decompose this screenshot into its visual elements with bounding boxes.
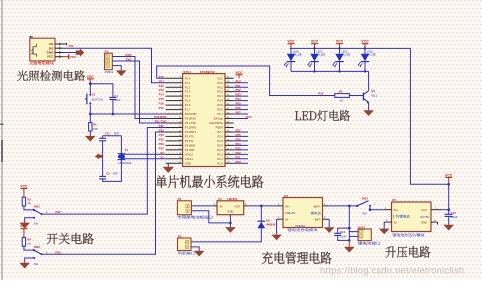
- U3 IN- to ground: [276, 219, 278, 234]
- svg-text:1K: 1K: [27, 241, 31, 245]
- section title 充电管理电路: [262, 251, 332, 264]
- svg-text:Q1: Q1: [371, 89, 375, 93]
- wire solar pin1 to ground rail: [191, 211, 230, 223]
- svg-text:IN: IN: [220, 204, 223, 208]
- svg-text:P1.7: P1.7: [185, 108, 191, 112]
- svg-text:P17: P17: [159, 106, 165, 110]
- svg-text:P0.5: P0.5: [217, 103, 223, 107]
- junction dot on rail: [313, 47, 315, 49]
- wire RXD to P3.0: [112, 57, 165, 119]
- svg-text:P3.4T0: P3.4T0: [185, 135, 194, 139]
- svg-text:VCC: VCC: [87, 75, 95, 79]
- svg-text:VCC: VCC: [361, 40, 369, 44]
- wire VCC node to C1: [90, 84, 113, 97]
- svg-text:P02: P02: [236, 88, 242, 92]
- capacitor C13: [445, 213, 453, 215]
- svg-text:USB+5V: USB+5V: [285, 211, 296, 215]
- svg-text:P0.0: P0.0: [217, 81, 223, 85]
- svg-text:P0.2: P0.2: [217, 90, 223, 94]
- capacitor C12 parallel loop: [338, 228, 350, 240]
- svg-text:P3.3INT1: P3.3INT1: [185, 130, 197, 134]
- svg-text:P22: P22: [236, 151, 242, 155]
- svg-text:P1.5: P1.5: [185, 99, 191, 103]
- svg-text:P2.4: P2.4: [217, 144, 223, 148]
- LED LED1: [364, 48, 366, 53]
- svg-text:https://blog.csdn.net/eletroni: https://blog.csdn.net/eletroniclish: [320, 265, 464, 275]
- svg-text:P12: P12: [159, 84, 165, 88]
- svg-text:P00: P00: [236, 79, 242, 83]
- junction dot at boost VCC pin wire: [447, 208, 450, 211]
- svg-text:P20: P20: [236, 160, 242, 164]
- wire U5 VCC pin to VCC node: [442, 209, 449, 211]
- U4 GND stem and junction: [229, 215, 231, 227]
- wires BAT1 pins: [349, 231, 358, 233]
- svg-text:X1: X1: [160, 155, 164, 159]
- ground for P1: [116, 70, 127, 76]
- svg-text:IN+: IN+: [285, 204, 290, 208]
- svg-text:P0.3: P0.3: [217, 94, 223, 98]
- port arrow GND from sensor: [63, 52, 76, 54]
- svg-text:P3.2INT0: P3.2INT0: [185, 126, 197, 130]
- svg-text:U5: U5: [392, 198, 396, 202]
- ground for Q1: [363, 110, 374, 116]
- solar panel connector P2: [177, 201, 191, 215]
- section title 单片机最小系统电路: [156, 175, 263, 188]
- U3 BAT- to ground: [328, 219, 330, 227]
- push button S1: [89, 84, 91, 94]
- svg-text:P2: P2: [178, 197, 182, 201]
- svg-text:OUT5V: OUT5V: [420, 215, 429, 219]
- U5 IN- to ground: [383, 222, 385, 229]
- label under U1: [29, 61, 54, 64]
- svg-text:LED3: LED3: [316, 50, 323, 53]
- svg-text:BAT-: BAT-: [315, 218, 321, 222]
- svg-text:GND: GND: [227, 210, 233, 214]
- svg-text:VCC: VCC: [336, 40, 344, 44]
- svg-text:TXD: TXD: [125, 57, 132, 61]
- svg-text:1K: 1K: [27, 201, 31, 205]
- wire SW2 to P3.3: [42, 132, 166, 254]
- svg-text:P11: P11: [69, 44, 74, 48]
- ground under battery node: [348, 240, 350, 246]
- svg-text:220uF: 220uF: [450, 215, 458, 219]
- crystal circuit loop wires: [103, 136, 122, 182]
- svg-text:1K: 1K: [340, 99, 344, 103]
- svg-text:BAT+: BAT+: [314, 204, 321, 208]
- svg-text:VCC: VCC: [246, 115, 253, 119]
- svg-text:9012: 9012: [371, 93, 377, 97]
- svg-text:Y1: Y1: [125, 148, 129, 152]
- diode D6 1N5819: [260, 206, 262, 221]
- svg-text:10K: 10K: [93, 127, 98, 131]
- label 太阳能电池板接口: [178, 215, 213, 218]
- junction dot at C1 bottom: [112, 113, 115, 116]
- resistor R3: [22, 197, 25, 206]
- wire solar pin2 to U4 IN: [191, 205, 212, 207]
- wire XTAL2: [121, 153, 165, 155]
- svg-text:P1.3: P1.3: [185, 90, 191, 94]
- svg-text:SW3: SW3: [362, 196, 369, 200]
- wire TXD to P3.1: [112, 61, 165, 123]
- junction dot VCC node: [447, 183, 450, 186]
- svg-text:VCC: VCC: [421, 208, 427, 212]
- resistor R1: [89, 114, 91, 123]
- svg-text:P06: P06: [236, 106, 242, 110]
- svg-text:SW2: SW2: [34, 245, 41, 249]
- wire DO to P1.1: [63, 48, 166, 82]
- no-connect ticks on U1 pins: [60, 43, 67, 59]
- svg-text:10uF: 10uF: [114, 98, 121, 102]
- junction dot at RST node: [89, 113, 92, 116]
- svg-text:P32: P32: [56, 210, 62, 214]
- resistor R4: [22, 237, 25, 246]
- svg-text:P23: P23: [236, 146, 242, 150]
- svg-text:P34: P34: [159, 133, 165, 137]
- U1 pin stubs: [55, 43, 67, 45]
- svg-text:P35: P35: [159, 138, 165, 142]
- wire D6 anode to fan connector: [191, 228, 261, 242]
- svg-text:RST/VPD: RST/VPD: [185, 112, 197, 116]
- svg-text:P3.7RD: P3.7RD: [185, 148, 194, 152]
- wire P1.0 to LED base resistor: [157, 66, 363, 96]
- svg-text:P2.6: P2.6: [217, 135, 223, 139]
- svg-text:P21: P21: [236, 155, 242, 159]
- svg-text:P26: P26: [236, 133, 242, 137]
- svg-text:STC1: STC1: [183, 70, 191, 74]
- svg-text:P14: P14: [159, 93, 165, 97]
- svg-text:P1.2: P1.2: [185, 85, 191, 89]
- svg-text:U3: U3: [284, 194, 288, 198]
- svg-text:VCC: VCC: [287, 40, 295, 44]
- junction dot on rail: [338, 47, 340, 49]
- svg-text:P3.1TXD: P3.1TXD: [185, 121, 196, 125]
- light sensor module U1: [30, 38, 55, 61]
- crystal Y1: [118, 153, 126, 155]
- svg-text:C11: C11: [105, 131, 110, 135]
- capacitor C11: [99, 137, 106, 139]
- svg-text:OUT: OUT: [234, 204, 240, 208]
- MCU right pin stubs: [225, 78, 234, 163]
- switch SW1: [24, 206, 34, 210]
- U4 pin stubs: [212, 205, 217, 207]
- svg-text:P2.2: P2.2: [217, 152, 223, 156]
- MCU right wires: [234, 83, 248, 164]
- resistor R2: [335, 94, 350, 98]
- svg-text:TP4056: TP4056: [295, 224, 305, 228]
- capacitor C2: [99, 175, 106, 177]
- svg-text:P25: P25: [236, 138, 242, 142]
- LED emission arrows: [333, 62, 337, 66]
- ground for SW1: [19, 223, 30, 229]
- svg-text:IN+: IN+: [394, 208, 399, 212]
- svg-text:RXD: RXD: [125, 53, 132, 57]
- label 锂电池接口: [358, 241, 380, 244]
- U3 pin stubs: [277, 205, 283, 207]
- svg-text:P3.0RXD: P3.0RXD: [185, 117, 196, 121]
- svg-text:P37: P37: [159, 146, 165, 150]
- svg-text:C2: C2: [106, 172, 110, 176]
- svg-text:P1: P1: [105, 50, 109, 54]
- svg-text:S1: S1: [92, 92, 96, 96]
- regulator U4 LM7805: [217, 201, 244, 215]
- svg-text:IN-: IN-: [285, 218, 289, 222]
- wire VCC node down to capacitor: [448, 184, 450, 214]
- section title 光照检测电路: [17, 70, 85, 80]
- wire battery node down: [348, 206, 350, 241]
- svg-text:P1.0: P1.0: [185, 76, 191, 80]
- ground for SW2: [19, 263, 30, 269]
- wire RST node to MCU: [90, 113, 165, 115]
- wire U4 OUT to U3 IN+: [247, 205, 276, 207]
- svg-text:SW1: SW1: [34, 205, 41, 209]
- svg-text:BAT1: BAT1: [358, 225, 366, 229]
- boost module U5: [392, 202, 432, 232]
- svg-text:VCC: VCC: [235, 71, 243, 75]
- svg-text:C13: C13: [451, 211, 456, 215]
- switch SW3: [356, 205, 358, 207]
- LED emission arrows: [284, 62, 288, 66]
- svg-text:VCC: VCC: [20, 185, 28, 189]
- svg-text:VCC: VCC: [445, 173, 453, 177]
- LED LED3: [314, 48, 316, 53]
- U5 GND stub tick: [437, 222, 439, 224]
- svg-text:P05: P05: [236, 102, 242, 106]
- svg-text:P03: P03: [236, 93, 242, 97]
- svg-text:U4: U4: [218, 197, 222, 201]
- U5 pin stubs: [384, 209, 391, 211]
- LED anode rail and VCC run to boost output: [290, 48, 449, 184]
- svg-text:PSEN: PSEN: [216, 126, 223, 130]
- switch SW2: [24, 246, 34, 250]
- wire BAT+ to SW3: [329, 205, 357, 207]
- VCC tap on sensor pin 4: [63, 56, 69, 58]
- svg-text:P2.0: P2.0: [217, 161, 223, 165]
- svg-text:P16: P16: [159, 102, 165, 106]
- label under U5: [392, 233, 424, 236]
- junction dot at D6: [260, 205, 263, 208]
- svg-text:LED1: LED1: [367, 50, 374, 53]
- junction dot battery node: [348, 205, 351, 208]
- svg-text:STC89C52: STC89C52: [200, 70, 215, 74]
- svg-text:P11: P11: [159, 79, 164, 83]
- junction dots at C12 loop: [348, 227, 351, 230]
- capacitor C1: [109, 96, 116, 98]
- svg-text:P3.5T1: P3.5T1: [185, 139, 194, 143]
- section title 升压电路: [386, 246, 431, 258]
- svg-text:LM7805: LM7805: [227, 197, 238, 201]
- screenshot left border: [1, 0, 3, 280]
- MCU left pin stubs: [166, 78, 183, 163]
- svg-text:P13: P13: [159, 88, 165, 92]
- LED LED2: [339, 48, 341, 53]
- svg-text:XTAL2: XTAL2: [185, 152, 194, 156]
- svg-text:P15: P15: [159, 97, 165, 101]
- svg-text:P27: P27: [236, 129, 242, 133]
- svg-text:P2.5: P2.5: [217, 139, 223, 143]
- fan connector P3: [178, 238, 192, 251]
- svg-text:P1.1: P1.1: [185, 81, 191, 85]
- svg-text:P2.3: P2.3: [217, 148, 223, 152]
- svg-text:P3B12: P3B12: [105, 70, 114, 74]
- svg-text:IN5819: IN5819: [266, 223, 275, 227]
- svg-text:P30: P30: [318, 92, 323, 96]
- battery connector BAT1: [358, 229, 371, 241]
- svg-text:P0.1: P0.1: [217, 85, 223, 89]
- svg-text:GND: GND: [185, 161, 191, 165]
- svg-text:P0.7: P0.7: [217, 112, 223, 116]
- photoresistor glyph inside U1: [33, 44, 36, 57]
- label 风机接口: [178, 251, 195, 254]
- ground under C13: [443, 225, 454, 231]
- svg-text:30P: 30P: [114, 131, 119, 135]
- svg-text:P01: P01: [236, 84, 242, 88]
- svg-text:R2: R2: [339, 90, 343, 94]
- svg-text:GND: GND: [421, 220, 427, 224]
- section title 开关电路: [47, 233, 94, 244]
- svg-text:P04: P04: [236, 97, 242, 101]
- svg-text:VCC: VCC: [70, 55, 77, 59]
- LED emission arrows: [358, 62, 362, 66]
- wire XTAL1: [121, 158, 165, 160]
- wire SW1 to P3.2: [42, 127, 166, 214]
- svg-text:VCC: VCC: [311, 40, 319, 44]
- P1 pin3 to ground: [112, 66, 121, 71]
- svg-text:SW: SW: [362, 211, 367, 215]
- svg-text:VCC: VCC: [217, 76, 223, 80]
- svg-text:P0.6: P0.6: [217, 108, 223, 112]
- svg-text:P24: P24: [236, 142, 242, 146]
- svg-text:IN-: IN-: [394, 220, 398, 224]
- svg-text:SW: SW: [34, 262, 39, 266]
- svg-text:10uF: 10uF: [340, 235, 346, 239]
- svg-text:C12: C12: [340, 230, 345, 234]
- svg-text:P0.4: P0.4: [217, 99, 223, 103]
- LED LED4: [290, 48, 292, 53]
- svg-text:P2.1: P2.1: [217, 157, 223, 161]
- wire SW3 to U5 IN+: [370, 206, 384, 210]
- svg-text:P1.6: P1.6: [185, 103, 191, 107]
- svg-text:P1.4: P1.4: [185, 94, 191, 98]
- svg-text:P31 TXD: P31 TXD: [155, 120, 167, 124]
- microcontroller U2 STC89C52: [183, 74, 225, 167]
- svg-text:VCC: VCC: [47, 55, 54, 59]
- svg-text:LED4: LED4: [293, 50, 300, 53]
- svg-text:30P: 30P: [113, 172, 118, 176]
- label 锂电池充电模块: [287, 228, 317, 231]
- svg-text:1.8432MHZ: 1.8432MHZ: [117, 161, 131, 165]
- svg-text:P36: P36: [159, 142, 165, 146]
- svg-text:P33: P33: [56, 250, 62, 254]
- svg-text:LED2: LED2: [341, 50, 348, 53]
- section title LED灯电路: [295, 110, 350, 121]
- port arrow at crystal ground: [95, 153, 103, 159]
- svg-text:EA/Vpp: EA/Vpp: [214, 117, 224, 121]
- fan pin1 to ground: [191, 247, 199, 251]
- svg-text:ALE/PROG: ALE/PROG: [209, 121, 223, 125]
- junction dot: [89, 82, 92, 85]
- connector P1: [105, 53, 113, 69]
- svg-text:P3.6WR: P3.6WR: [185, 144, 195, 148]
- ground under R1: [85, 136, 96, 142]
- svg-text:VCC: VCC: [20, 225, 28, 229]
- svg-text:P3: P3: [178, 234, 182, 238]
- junction dot on rail: [364, 47, 366, 49]
- ground for U4: [225, 227, 236, 233]
- charge module U3 TP4056: [283, 198, 323, 228]
- svg-text:P30 RXD: P30 RXD: [154, 115, 166, 119]
- svg-text:X2: X2: [160, 151, 164, 155]
- LED emission arrows: [308, 62, 312, 66]
- svg-text:BUTTON: BUTTON: [92, 98, 103, 102]
- svg-text:SW: SW: [34, 222, 39, 226]
- LED cathode rail: [291, 70, 369, 72]
- svg-text:P2.7: P2.7: [217, 130, 223, 134]
- svg-text:P07: P07: [236, 111, 242, 115]
- svg-text:XTAL1: XTAL1: [185, 157, 194, 161]
- MCU ground: [167, 163, 169, 167]
- transistor Q1: [368, 71, 370, 90]
